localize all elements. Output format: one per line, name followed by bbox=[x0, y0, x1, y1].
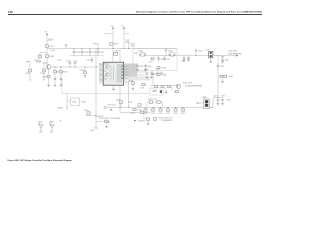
resistor R5205 chain bbox=[54, 67, 56, 84]
component above box bbox=[128, 42, 130, 49]
IC internal grey column bbox=[117, 64, 123, 83]
svg-text:C5220: C5220 bbox=[138, 110, 142, 112]
wire base bus y67 bbox=[51, 66, 104, 68]
svg-text:5V: 5V bbox=[60, 120, 62, 122]
svg-text:TO Q5254: TO Q5254 bbox=[138, 120, 145, 122]
svg-text:R5204: R5204 bbox=[43, 76, 48, 78]
wire connector left pin bbox=[199, 102, 204, 104]
svg-text:R5268: R5268 bbox=[227, 100, 231, 102]
connector M5401 bbox=[204, 99, 210, 109]
capacitor C5272 bbox=[160, 107, 162, 109]
svg-text:R5203: R5203 bbox=[35, 60, 40, 62]
capacitor C5265 on x153 bbox=[152, 73, 154, 75]
svg-text:R: R bbox=[111, 68, 112, 70]
svg-text:C5202: C5202 bbox=[26, 73, 31, 75]
svg-text:C5217 L5211: C5217 L5211 bbox=[107, 105, 116, 107]
svg-text:C5271: C5271 bbox=[151, 113, 155, 115]
svg-text:C5259: C5259 bbox=[134, 53, 138, 55]
ground bbox=[54, 84, 56, 85]
svg-text:Schematic Diagrams, Overlays,: Schematic Diagrams, Overlays, and Parts … bbox=[136, 11, 262, 14]
wire connector right route bbox=[210, 107, 214, 109]
wire amp y85.3 bbox=[150, 84, 179, 86]
svg-text:C5269: C5269 bbox=[220, 66, 224, 68]
svg-text:C5213: C5213 bbox=[66, 61, 71, 63]
wire top ticks bbox=[104, 33, 113, 35]
wire RF line y55.6 bbox=[177, 55, 236, 57]
series caps on base bus bbox=[69, 62, 71, 64]
resistor R5255 bbox=[142, 83, 145, 85]
svg-text:C5277: C5277 bbox=[153, 90, 157, 92]
capacitor C5208 decouple bbox=[73, 49, 75, 52]
wire shield bottom y93.5 bbox=[62, 93, 150, 95]
svg-text:Q2: Q2 bbox=[105, 76, 107, 78]
svg-text:C5215: C5215 bbox=[80, 70, 85, 72]
op-amp U5201 VCO IC bbox=[103, 62, 124, 85]
IC internal marks bbox=[110, 65, 112, 81]
amp lower component bbox=[176, 90, 179, 92]
varactor pair D5251 bbox=[140, 52, 145, 54]
wire y112.3 bbox=[120, 111, 150, 113]
svg-text:C5219 R5211: C5219 R5211 bbox=[95, 116, 104, 118]
shield box LC resonator bbox=[133, 49, 177, 71]
capacitor C5413 bbox=[217, 98, 219, 100]
svg-text:Figure 4-88. VHF Voltage Cont: Figure 4-88. VHF Voltage Controlled Osci… bbox=[8, 159, 73, 162]
resistor R5202 on supply bbox=[45, 45, 48, 47]
resistor R5215 on supply lower bbox=[45, 55, 48, 58]
svg-text:TO RX BUFFER: TO RX BUFFER bbox=[161, 120, 172, 122]
capacitor C5206 chain bbox=[60, 77, 62, 79]
capacitor C5273 bbox=[167, 107, 169, 109]
svg-text:L5251: L5251 bbox=[149, 61, 153, 63]
capacitor C5210 decouple bbox=[89, 49, 91, 52]
wire vertical x124 bbox=[123, 32, 125, 49]
connector pad circle bbox=[104, 106, 106, 108]
transistor inside IC top bbox=[106, 65, 109, 68]
wire inside box y55.6 bbox=[145, 55, 177, 57]
svg-text:R5267 C5278: R5267 C5278 bbox=[183, 82, 192, 84]
resistor R5261 bbox=[157, 66, 160, 68]
node dots rf line bbox=[195, 54, 198, 57]
svg-text:C5209: C5209 bbox=[84, 52, 89, 54]
row2 R5214 bbox=[146, 118, 149, 120]
svg-text:L5253: L5253 bbox=[206, 49, 210, 51]
header rule bbox=[8, 14, 262, 16]
svg-text:E5201: E5201 bbox=[38, 122, 42, 124]
svg-text:C5221: C5221 bbox=[90, 130, 94, 132]
capacitor C5255 bbox=[151, 71, 153, 73]
svg-text:R5264: R5264 bbox=[229, 76, 233, 78]
component R5210 bbox=[87, 112, 90, 114]
wire vertical right x218 bbox=[217, 56, 219, 98]
svg-text:C5253: C5253 bbox=[125, 82, 129, 84]
power arrow 5V left bbox=[46, 33, 48, 35]
svg-text:U5201: U5201 bbox=[104, 64, 108, 66]
wire vertical supply x47 bbox=[46, 38, 48, 65]
component R5211 bbox=[138, 104, 141, 106]
svg-text:SH52: SH52 bbox=[50, 132, 54, 134]
capacitor C5263 bbox=[137, 64, 139, 66]
power arrow 5V mid1 bbox=[112, 27, 114, 29]
svg-text:M5401: M5401 bbox=[203, 97, 207, 99]
bracket wires L5213 bbox=[146, 102, 148, 107]
inductor L5251 bbox=[151, 58, 154, 60]
svg-text:R5207: R5207 bbox=[82, 102, 86, 104]
svg-text:L5210: L5210 bbox=[116, 100, 120, 102]
svg-text:Q1: Q1 bbox=[105, 71, 107, 73]
capacitor C5211 decouple bbox=[97, 49, 99, 52]
IC bottom stub ground bbox=[113, 85, 115, 88]
capacitor C5203 bbox=[43, 63, 45, 80]
svg-text:C5267: C5267 bbox=[181, 61, 185, 63]
wire vertical x120 bbox=[119, 85, 121, 112]
svg-text:4-88: 4-88 bbox=[8, 11, 13, 14]
wire decouple rail y55.8 bbox=[70, 55, 104, 57]
IC pin stubs right bbox=[124, 65, 129, 67]
svg-text:C5258: C5258 bbox=[131, 46, 135, 48]
wire y115.3 bbox=[85, 114, 96, 116]
arrow onto top bus bbox=[65, 45, 67, 47]
svg-text:TP5202: TP5202 bbox=[58, 107, 64, 109]
svg-text:R5261: R5261 bbox=[162, 67, 166, 69]
wire vertical x113 bbox=[112, 32, 114, 62]
svg-text:C5274: C5274 bbox=[173, 113, 177, 115]
wires blob to caps bbox=[137, 71, 146, 73]
capacitor C5414 bbox=[222, 98, 224, 100]
svg-text:C5216: C5216 bbox=[72, 102, 76, 104]
svg-text:E5202: E5202 bbox=[49, 122, 53, 124]
arrow end of rf line bbox=[236, 55, 239, 57]
svg-text:R5210: R5210 bbox=[84, 110, 88, 112]
resistor R5203 branch bbox=[40, 52, 47, 54]
svg-text:Q5201: Q5201 bbox=[43, 63, 48, 65]
svg-text:C5252: C5252 bbox=[115, 51, 120, 53]
svg-text:R5253: R5253 bbox=[126, 42, 131, 44]
capacitor C5271 bbox=[152, 107, 154, 109]
svg-text:R5212 C5219 TO VCO BUFFER: R5212 C5219 TO VCO BUFFER bbox=[99, 118, 120, 120]
svg-text:C5210: C5210 bbox=[92, 52, 97, 54]
node dots base bus bbox=[54, 66, 57, 69]
svg-text:C5211: C5211 bbox=[100, 52, 104, 54]
capacitor C5217 bbox=[110, 107, 112, 109]
shield box small bbox=[150, 88, 163, 95]
capacitor C5224 above bus bbox=[157, 101, 160, 104]
wire y121.4 bbox=[96, 120, 110, 122]
resistor R5266 bbox=[161, 85, 164, 87]
svg-text:R5251: R5251 bbox=[114, 44, 119, 46]
wire tick at supply bbox=[47, 39, 52, 41]
svg-text:L5213 C5224: L5213 C5224 bbox=[148, 99, 157, 101]
svg-text:R5201: R5201 bbox=[49, 39, 54, 41]
resistor R5262 bbox=[157, 73, 160, 75]
capacitor C at 188.5 bbox=[188, 56, 190, 58]
capacitor C5275 bbox=[182, 107, 184, 109]
svg-text:C5262: C5262 bbox=[166, 59, 170, 61]
inductor L5252 dark bbox=[209, 51, 213, 58]
svg-text:C5203: C5203 bbox=[40, 73, 45, 75]
wire x120 into IC top bbox=[119, 49, 121, 63]
shading left of IC bbox=[99, 63, 103, 84]
caps pair2 right of IC bbox=[157, 71, 159, 73]
buffer crossed box bbox=[105, 120, 108, 123]
svg-text:R5206: R5206 bbox=[63, 72, 68, 74]
capacitor C5209 decouple bbox=[81, 49, 83, 52]
svg-text:C5268: C5268 bbox=[225, 59, 229, 61]
svg-text:L5201: L5201 bbox=[51, 50, 55, 52]
power arrow 5V mid2 bbox=[123, 27, 125, 29]
svg-text:R5211: R5211 bbox=[129, 102, 133, 104]
capacitor C5209 bracket bbox=[66, 94, 68, 111]
arrow right label bbox=[134, 120, 137, 122]
svg-text:SH52: SH52 bbox=[39, 132, 43, 134]
ground under L5253 bbox=[210, 58, 212, 60]
node dots bottom bus bbox=[119, 106, 122, 109]
transistor inside IC bottom bbox=[106, 73, 109, 76]
svg-text:C5273: C5273 bbox=[166, 113, 170, 115]
x96 bottom tick bbox=[94, 127, 98, 129]
svg-text:C5218: C5218 bbox=[131, 112, 135, 114]
svg-text:C5257: C5257 bbox=[140, 88, 144, 90]
svg-text:C5201: C5201 bbox=[49, 46, 54, 48]
svg-text:R5262: R5262 bbox=[199, 51, 203, 53]
resistor R5254 below blob bbox=[131, 82, 134, 84]
capacitor C5269 on x218 bbox=[217, 65, 219, 67]
capacitor C5264 bbox=[145, 64, 147, 66]
svg-text:R5202: R5202 bbox=[50, 56, 55, 58]
wire bottom bus y107.3 bbox=[106, 106, 213, 108]
svg-text:D5252: D5252 bbox=[168, 50, 172, 52]
row2 C5222 bbox=[153, 118, 156, 120]
wire vertical x128.5 bbox=[128, 79, 130, 107]
inductor L5209 bbox=[119, 101, 122, 103]
svg-text:C5212: C5212 bbox=[87, 59, 91, 61]
capacitor C5202 bbox=[29, 63, 31, 80]
inductor L5213 above bus bbox=[149, 101, 152, 104]
component at 134 bbox=[133, 108, 136, 110]
svg-text:L5413: L5413 bbox=[221, 96, 225, 98]
svg-text:D5251: D5251 bbox=[139, 50, 143, 52]
svg-text:C5261: C5261 bbox=[160, 59, 164, 61]
capacitor C5215 to ground bbox=[84, 67, 86, 71]
capacitor C5274 bbox=[175, 107, 177, 109]
dark mark in shield box bbox=[160, 90, 162, 93]
wire top bus y48.5 bbox=[47, 48, 177, 50]
varactor pair D5252 bbox=[170, 52, 175, 54]
svg-text:C5263: C5263 bbox=[139, 66, 143, 68]
resistor R5265 bbox=[155, 85, 158, 87]
IC internal pin marks bbox=[122, 66, 124, 67]
resistor R5251 bbox=[110, 43, 113, 46]
transistor Q5251 bbox=[176, 84, 180, 88]
wire vertical x96 bbox=[95, 49, 97, 129]
ground bbox=[60, 84, 62, 85]
svg-text:TO RX FRONT END: TO RX FRONT END bbox=[228, 53, 243, 55]
svg-text:C5266: C5266 bbox=[162, 74, 166, 76]
capacitor C5212 near IC bbox=[91, 57, 93, 60]
svg-text:C5208: C5208 bbox=[76, 52, 81, 54]
svg-text:C5250: C5250 bbox=[57, 59, 62, 61]
svg-text:C5264: C5264 bbox=[147, 66, 151, 68]
svg-text:(TO SYNTHESIZER): (TO SYNTHESIZER) bbox=[185, 86, 199, 88]
IC pin stubs left bbox=[99, 64, 103, 66]
svg-text:C5251: C5251 bbox=[126, 40, 131, 42]
arrow gnd in box bbox=[165, 50, 167, 52]
svg-text:C5214: C5214 bbox=[73, 61, 78, 63]
transistor emitter chain bbox=[48, 69, 50, 84]
resistor R5206 chain bbox=[60, 67, 62, 84]
svg-text:C5272: C5272 bbox=[158, 113, 162, 115]
capacitor C5270 bbox=[145, 107, 147, 109]
component R5213 on y112 bbox=[140, 111, 143, 113]
ground under buffer bbox=[106, 123, 108, 126]
capacitor C5205 chain bbox=[54, 77, 56, 79]
capacitor C at 184 bbox=[183, 56, 185, 58]
wire shield left x62 bbox=[61, 79, 63, 94]
node dots top bus bbox=[73, 47, 76, 50]
capacitor C5276 bbox=[168, 85, 171, 87]
cap arrow at 222.5 bbox=[221, 56, 223, 58]
capacitor C5254 bbox=[146, 71, 148, 73]
transistor Q5201 bbox=[46, 65, 51, 70]
resistor pair R5264 bbox=[220, 75, 223, 77]
svg-text:R5256: R5256 bbox=[131, 43, 135, 45]
capacitor C5262 bbox=[164, 56, 166, 58]
wire vertical x153 LC to amp bbox=[152, 71, 154, 86]
shading blob right of IC bbox=[124, 64, 137, 78]
svg-text:R5254: R5254 bbox=[129, 80, 133, 82]
svg-text:R5215 C5223 L5214: R5215 C5223 L5214 bbox=[159, 117, 172, 119]
svg-text:C5413: C5413 bbox=[214, 96, 218, 98]
arrow gnd at 196 bbox=[195, 50, 197, 52]
resistor R5252 bbox=[114, 52, 118, 55]
capacitor C5261 bbox=[158, 56, 160, 58]
svg-text:FROM: FROM bbox=[26, 61, 31, 63]
svg-text:C5275: C5275 bbox=[181, 113, 185, 115]
svg-text:C5412 L5412: C5412 L5412 bbox=[228, 51, 237, 53]
